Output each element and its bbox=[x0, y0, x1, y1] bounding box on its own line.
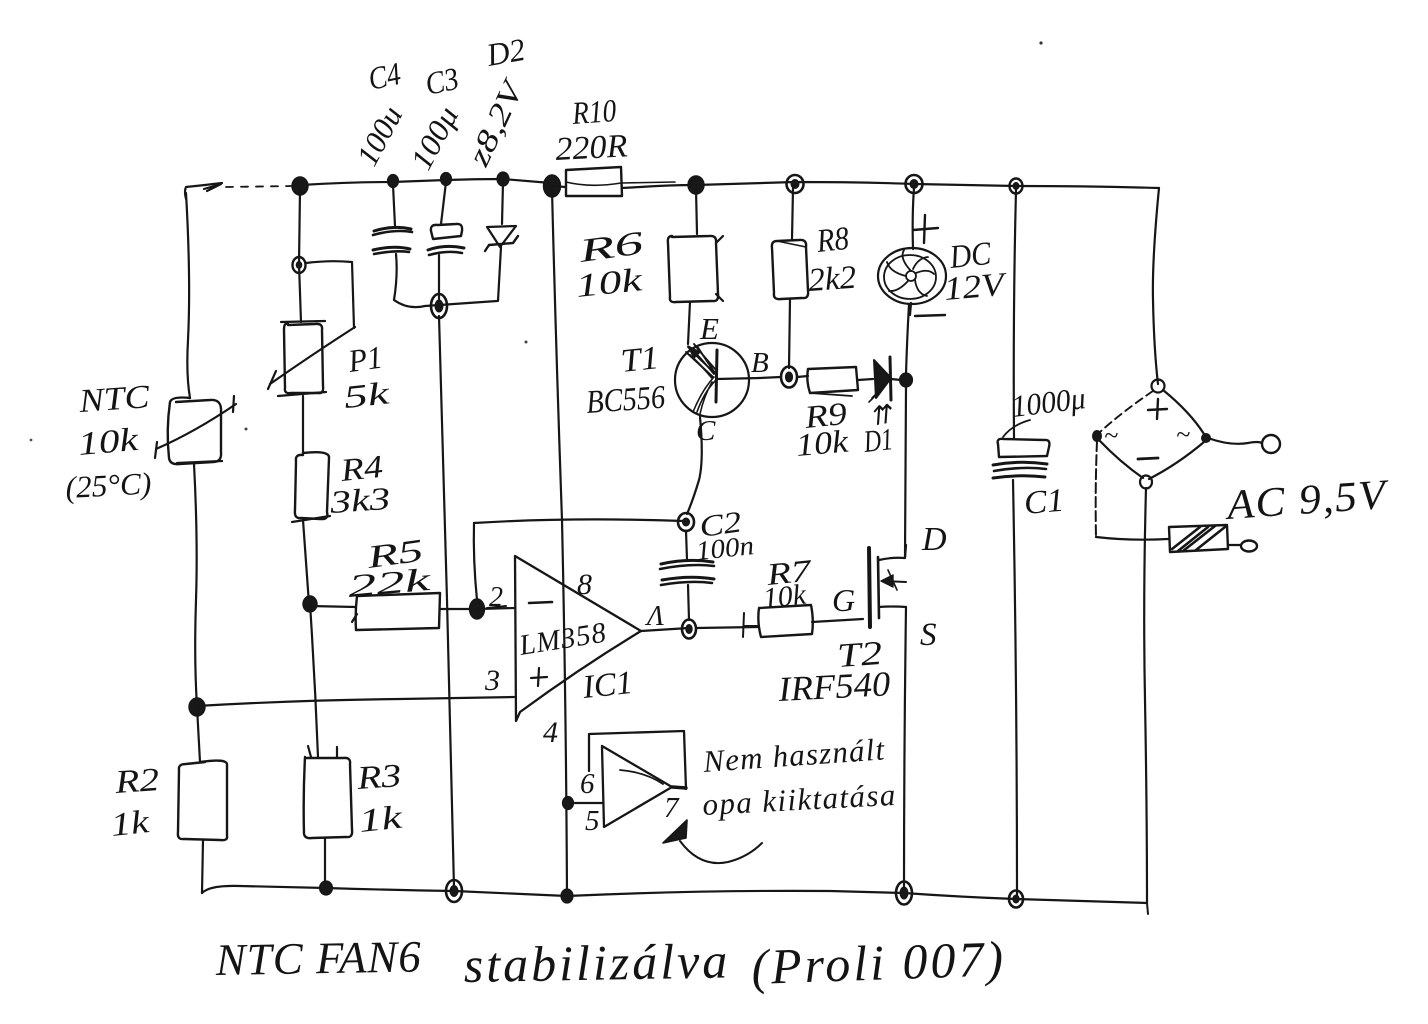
node bus junction bbox=[431, 294, 447, 318]
resistor R10 bbox=[552, 167, 622, 196]
arrow to unused opamp bbox=[663, 820, 762, 863]
resistor R2 bbox=[178, 761, 227, 841]
resistor R3 bbox=[304, 746, 352, 838]
wire feedback horizontal bbox=[474, 519, 684, 523]
wire base to node bbox=[760, 377, 781, 378]
svg-text:D1: D1 bbox=[861, 421, 894, 459]
wire R6 stub bbox=[696, 189, 697, 234]
node R5 left bbox=[303, 596, 317, 612]
wire R8 stub bbox=[792, 188, 793, 239]
wire C3 stub bbox=[441, 182, 446, 224]
resistor R8 bbox=[772, 240, 808, 299]
wire left rail mid bbox=[194, 464, 197, 706]
op-amp U1 LM358 bbox=[515, 556, 641, 721]
wire P1 to R4 bbox=[302, 396, 304, 453]
wire R3 to bottom rail bbox=[324, 838, 326, 888]
node top rail x551 (R10 left) bbox=[544, 175, 561, 197]
zener diode D2 bbox=[485, 226, 518, 251]
potentiometer P1 bbox=[268, 321, 355, 396]
wire C4 to bus bbox=[394, 254, 397, 300]
capacitor C1 bbox=[993, 439, 1049, 478]
svg-text:6: 6 bbox=[580, 768, 595, 800]
wire C3 to bus node bbox=[438, 255, 440, 300]
svg-text:(25°C): (25°C) bbox=[65, 466, 153, 505]
wire opamp output bbox=[641, 628, 689, 631]
resistor R6 bbox=[668, 236, 723, 302]
wire NTC to R2 bbox=[197, 707, 200, 762]
fuse hatched box bbox=[1169, 525, 1240, 552]
capacitor C4 bbox=[373, 227, 412, 254]
wire fan stub bbox=[913, 188, 914, 249]
node bottom x454 bbox=[446, 880, 462, 902]
wire C1 vertical upper bbox=[1014, 190, 1016, 438]
wire collector down bbox=[687, 417, 702, 514]
svg-text:3k3: 3k3 bbox=[328, 480, 392, 520]
node D1 drain bbox=[900, 373, 913, 387]
wire wiper link bbox=[306, 261, 354, 328]
thermistor NTC bbox=[155, 396, 236, 464]
diode D1 bbox=[869, 357, 891, 402]
wire C1 vertical lower bbox=[1013, 480, 1017, 896]
wire output to R7 bbox=[696, 627, 758, 628]
svg-text:stabilizálva: stabilizálva bbox=[463, 932, 731, 993]
svg-text:7: 7 bbox=[664, 792, 680, 824]
wire pin2 to opamp bbox=[477, 608, 515, 609]
bridge rectifier B1 bbox=[1093, 380, 1211, 489]
node pin5 bbox=[563, 797, 574, 810]
node top rail x503 bbox=[497, 172, 509, 186]
wire D2 to bus bbox=[498, 247, 501, 301]
svg-text:Λ: Λ bbox=[644, 601, 664, 632]
node base R8 R9 bbox=[781, 367, 797, 388]
label bridge plus bbox=[1148, 399, 1167, 419]
wire bridge to terminal bbox=[1208, 438, 1262, 444]
node top rail x795 bbox=[787, 175, 804, 193]
node feedback top bbox=[678, 513, 694, 531]
speck bbox=[245, 428, 248, 431]
node bottom x1016 bbox=[1009, 891, 1023, 908]
svg-text:R3: R3 bbox=[355, 758, 403, 797]
wire R7 to gate bbox=[812, 619, 863, 622]
resistor R9 bbox=[807, 367, 858, 396]
label bridge minus bbox=[1138, 458, 1158, 459]
wire x300 top to P1 bbox=[299, 190, 301, 322]
svg-text:1k: 1k bbox=[357, 799, 405, 839]
wire to fuse bbox=[1096, 537, 1168, 540]
wire top rail left hook bbox=[185, 183, 222, 199]
svg-text:R2: R2 bbox=[113, 762, 161, 801]
node top rail x1016 bbox=[1010, 179, 1023, 194]
node bottom x326 bbox=[320, 881, 333, 895]
node wiper tap bbox=[293, 257, 306, 273]
svg-text:2k2: 2k2 bbox=[807, 260, 857, 299]
svg-text:3: 3 bbox=[484, 664, 500, 697]
svg-text:12V: 12V bbox=[943, 267, 1010, 308]
svg-text:8: 8 bbox=[577, 568, 592, 601]
wire bottom rail bbox=[202, 886, 1147, 903]
svg-text:IRF540: IRF540 bbox=[776, 664, 891, 709]
transistor T2 IRF540 mosfet bbox=[869, 545, 906, 627]
svg-text:E: E bbox=[699, 311, 719, 346]
svg-text:G: G bbox=[832, 582, 855, 618]
svg-text:22k: 22k bbox=[346, 561, 432, 604]
svg-text:C: C bbox=[696, 415, 716, 447]
label fan minus bbox=[910, 303, 945, 316]
speck bbox=[30, 439, 33, 442]
wire pin5 stub bbox=[568, 802, 602, 804]
node pin3 wire left bbox=[189, 698, 205, 716]
speck bbox=[1039, 41, 1042, 44]
svg-text:10k: 10k bbox=[761, 579, 808, 615]
wire R6 to emitter bbox=[688, 302, 690, 344]
node top rail x392 bbox=[388, 175, 399, 188]
wire fan bottom to D1 node bbox=[906, 304, 909, 374]
wire left rail upper bbox=[186, 193, 190, 398]
wire top rail after R10 bbox=[622, 182, 675, 183]
wire D1 to node bbox=[891, 379, 901, 380]
svg-text:~: ~ bbox=[1104, 421, 1118, 450]
svg-text:BC556: BC556 bbox=[585, 380, 667, 421]
svg-text:D: D bbox=[921, 521, 947, 558]
svg-text:T1: T1 bbox=[619, 340, 661, 380]
resistor R4 bbox=[292, 452, 330, 522]
svg-text:D2: D2 bbox=[483, 31, 528, 73]
wire R9 to D1 bbox=[858, 379, 873, 380]
wire node to R3 bbox=[310, 604, 318, 757]
label pointer curve bbox=[1003, 420, 1030, 437]
wire source down bbox=[904, 607, 906, 891]
svg-text:C1: C1 bbox=[1023, 483, 1066, 522]
svg-text:100n: 100n bbox=[694, 530, 755, 566]
node bottom x904 bbox=[896, 882, 912, 905]
svg-text:R8: R8 bbox=[814, 221, 851, 260]
node top rail x300 bbox=[292, 177, 308, 195]
node inverting input bbox=[470, 599, 485, 619]
terminal AC bottom bbox=[1241, 541, 1257, 552]
svg-text:4: 4 bbox=[543, 716, 558, 749]
svg-text:5k: 5k bbox=[342, 374, 392, 415]
svg-text:NTC FAN6: NTC FAN6 bbox=[214, 931, 422, 985]
svg-text:B: B bbox=[751, 347, 769, 379]
wire R4 to R5 node bbox=[303, 520, 309, 604]
wire drain vertical bbox=[905, 387, 906, 557]
terminal AC right bbox=[1262, 435, 1280, 453]
wire R8 to base node bbox=[789, 299, 790, 368]
wire top rail main bbox=[301, 179, 551, 185]
wire bus vertical long bbox=[439, 316, 454, 888]
label pin2 bbox=[487, 582, 506, 613]
wire top rail dashed segment bbox=[226, 186, 293, 187]
svg-text:(Proli 007): (Proli 007) bbox=[750, 930, 1007, 995]
wire R2 to bottom rail bbox=[202, 840, 203, 893]
svg-text:10k: 10k bbox=[574, 262, 645, 305]
svg-text:1k: 1k bbox=[109, 804, 152, 844]
wire D2 stub bbox=[502, 182, 503, 224]
node top rail x446 bbox=[441, 173, 452, 186]
transistor T1 BC556 bbox=[675, 343, 760, 417]
svg-text:220R: 220R bbox=[555, 128, 629, 168]
node bottom x567 bbox=[561, 889, 573, 903]
svg-text:10k: 10k bbox=[794, 423, 850, 463]
wire right edge down to bridge bbox=[1153, 188, 1159, 384]
wire bottom bus bbox=[394, 300, 497, 307]
svg-text:S: S bbox=[920, 617, 937, 653]
wire supply vertical x552 bbox=[552, 190, 567, 896]
resistor R7 bbox=[743, 605, 813, 637]
svg-text:IC1: IC1 bbox=[580, 665, 634, 706]
wire bridge left down bbox=[1096, 441, 1097, 537]
svg-text:NTC: NTC bbox=[77, 379, 152, 420]
label fan plus bbox=[913, 215, 938, 243]
op-amp U2 unused bbox=[589, 731, 686, 827]
node output bbox=[682, 620, 696, 639]
svg-text:R10: R10 bbox=[570, 92, 617, 131]
resistor R5 bbox=[310, 593, 476, 630]
wire feedback vertical bbox=[474, 523, 477, 600]
capacitor C2 bbox=[660, 531, 714, 620]
wire bridge bottom down bbox=[1144, 488, 1147, 903]
wire node to R9 bbox=[797, 376, 808, 377]
capacitor C3 bbox=[428, 224, 464, 255]
wire C4 stub bbox=[393, 185, 395, 226]
fan motor DC 12V bbox=[878, 248, 946, 304]
svg-text:P1: P1 bbox=[345, 339, 385, 380]
svg-text:~: ~ bbox=[1176, 420, 1190, 449]
node top rail x915 bbox=[906, 175, 923, 193]
svg-text:10k: 10k bbox=[77, 422, 142, 463]
svg-text:5: 5 bbox=[585, 805, 600, 837]
speck bbox=[525, 341, 528, 344]
wire pin3 long bbox=[197, 697, 514, 706]
node top rail x696 bbox=[688, 176, 704, 194]
